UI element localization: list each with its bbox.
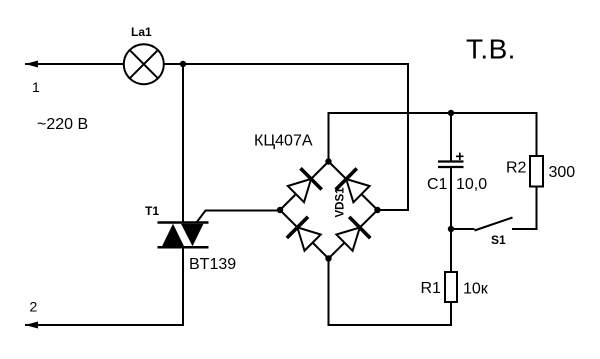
svg-text:КЦ407А: КЦ407А (254, 133, 313, 150)
diode top-left of bridge VDS1 (288, 168, 322, 202)
svg-text:T1: T1 (145, 204, 159, 218)
triac T1 (158, 223, 209, 248)
junction dot: node C1 top (448, 110, 454, 116)
svg-text:1: 1 (32, 79, 40, 95)
diode top-right of bridge VDS1 (336, 168, 370, 202)
wire: bridge edge left-bottom (280, 210, 329, 259)
svg-text:10к: 10к (463, 281, 489, 298)
wire: right vertical down to bridge right node (378, 63, 409, 210)
terminal 1 arrowhead (25, 61, 38, 68)
terminal 2 arrowhead (25, 322, 38, 329)
wire: triac gate to bridge left node (197, 211, 281, 223)
junction dot: bridge bottom node (325, 255, 331, 261)
wire: C1 top lead (450, 113, 452, 161)
lamp La1 (124, 44, 164, 84)
svg-text:VDS1: VDS1 (335, 187, 347, 218)
svg-text:BT139: BT139 (189, 256, 236, 273)
svg-text:10,0: 10,0 (456, 176, 487, 193)
junction dot: bridge top node (325, 158, 331, 164)
junction dot: node C1/S1/R1 (448, 226, 454, 232)
capacitor C1 plates (438, 162, 464, 168)
wire: bridge bottom node down right to R1 (329, 259, 452, 326)
junction dot: lamp junction (180, 61, 186, 67)
junction dot: bridge right node (374, 207, 380, 213)
resistor R2 (530, 156, 543, 187)
svg-text:2: 2 (30, 299, 38, 315)
junction dot: bridge left node (277, 207, 283, 213)
svg-text:La1: La1 (131, 25, 152, 39)
resistor R1 (445, 272, 457, 302)
wire: S1 left stub (451, 228, 475, 230)
svg-text:R2: R2 (506, 160, 527, 177)
svg-text:Т.В.: Т.В. (466, 34, 516, 65)
C1 plus sign (456, 153, 464, 160)
wire: bridge top node up and right to R2 (329, 113, 537, 162)
diode bottom-left of bridge VDS1 (287, 217, 321, 251)
svg-text:R1: R1 (421, 280, 442, 297)
svg-text:C1: C1 (427, 176, 448, 193)
svg-text:~220 В: ~220 В (37, 116, 88, 133)
diode bottom-right of bridge VDS1 (336, 217, 370, 251)
switch S1 blade (475, 218, 513, 231)
wire: C1 bottom lead down through junction to R1 (450, 168, 452, 273)
wire: top line terminal1 to right corner (25, 63, 408, 65)
wire: triac bottom to terminal 2 (25, 247, 183, 325)
wire: lamp junction down to triac (182, 64, 184, 223)
wire: bridge edge bottom-right (329, 210, 378, 259)
svg-text:S1: S1 (491, 233, 506, 247)
wire: R2 bottom to switch (512, 187, 537, 230)
wire: bridge edge top-right (329, 162, 378, 211)
wire: bridge edge left-top (280, 162, 329, 211)
svg-text:300: 300 (549, 164, 576, 181)
